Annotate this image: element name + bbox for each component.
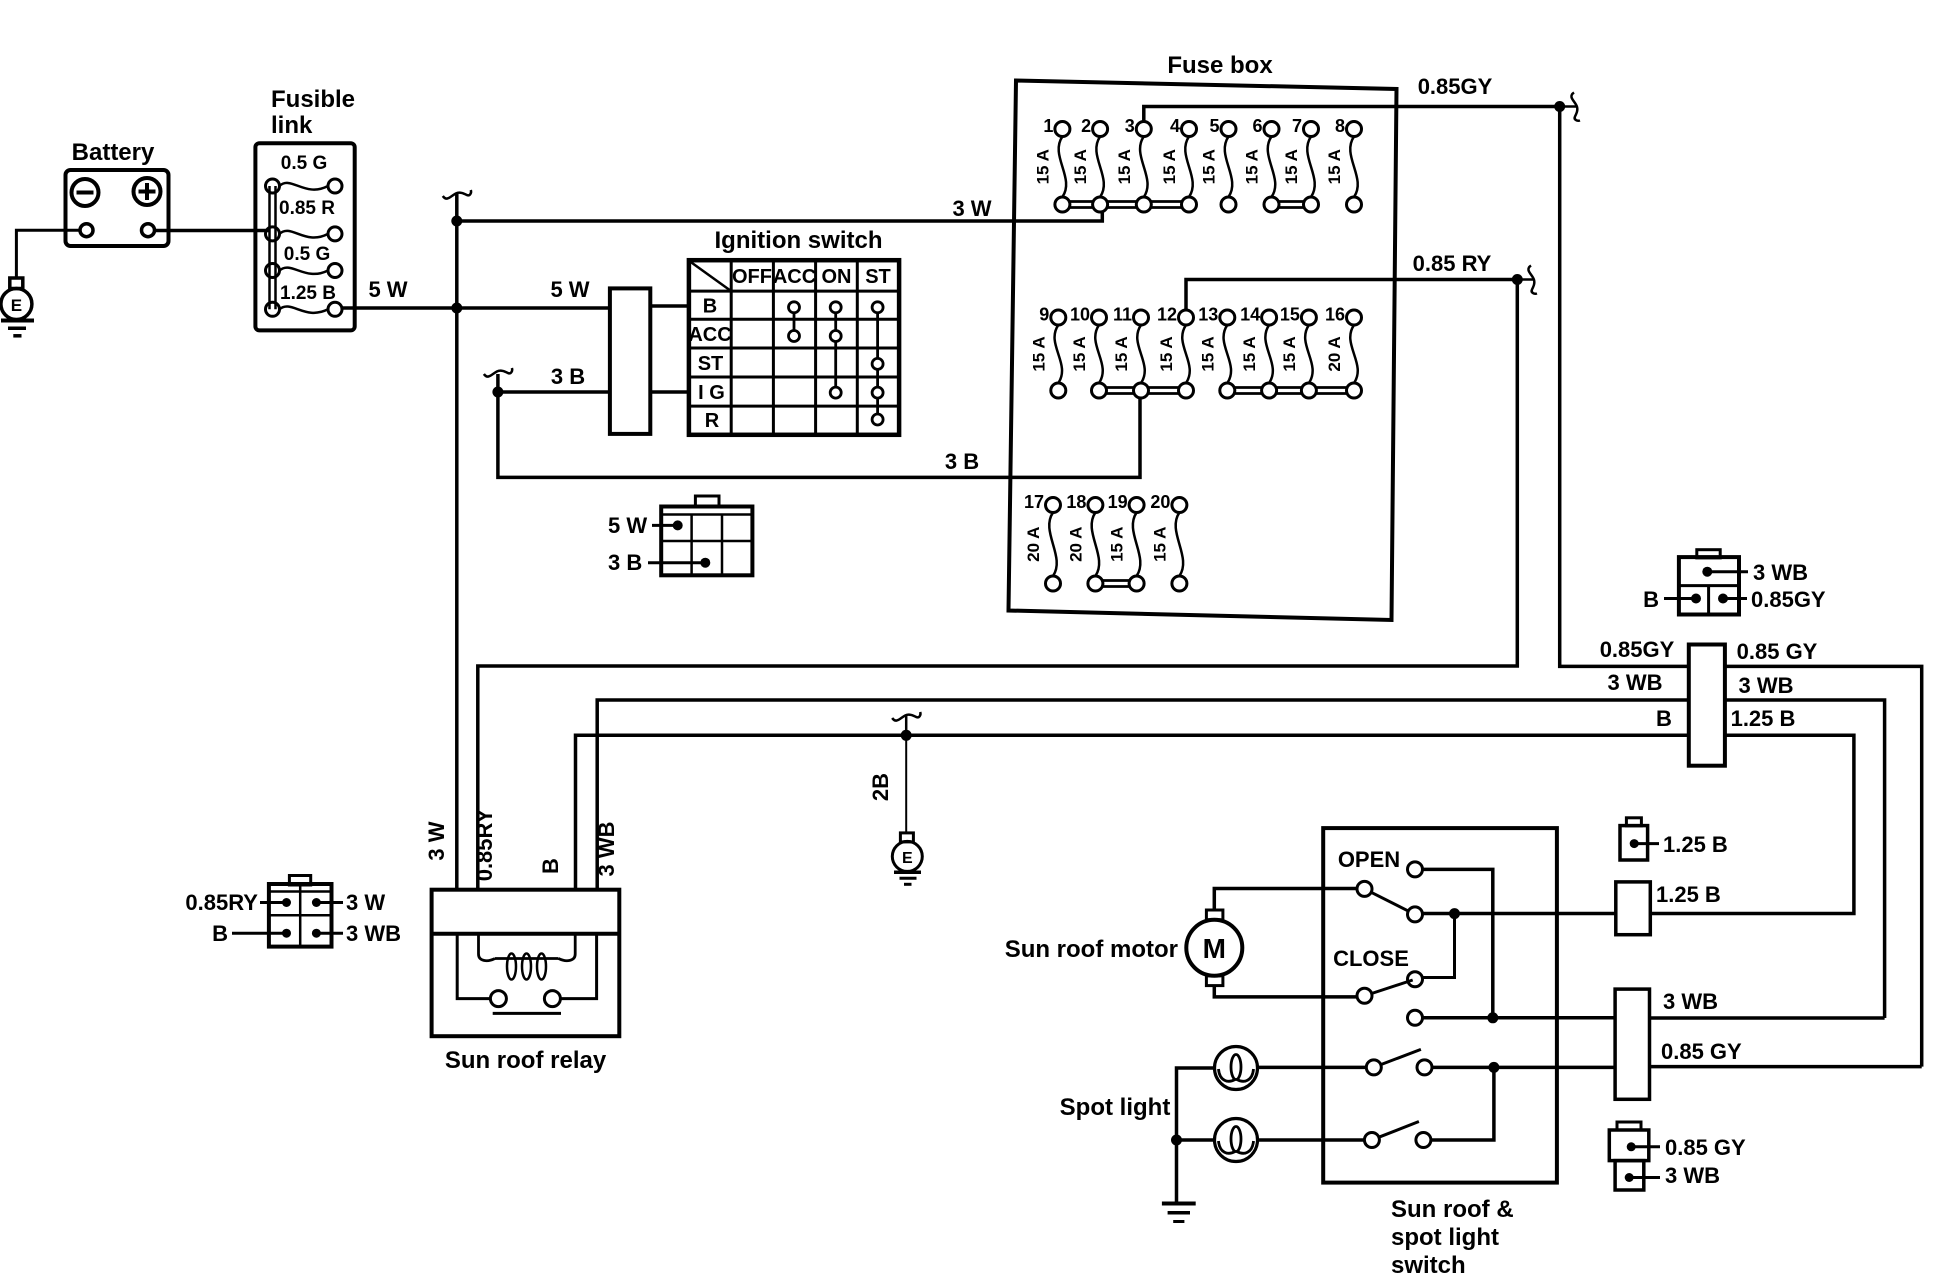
- sun roof relay: [432, 890, 620, 1036]
- wire 3WB relay to connector block: [597, 700, 1689, 890]
- svg-text:0.5 G: 0.5 G: [281, 153, 327, 174]
- fuse box bus fuses 18-19: [1095, 581, 1136, 587]
- svg-text:1: 1: [1043, 116, 1053, 136]
- svg-text:switch: switch: [1391, 1252, 1466, 1279]
- fusible link box: [255, 143, 354, 330]
- wire 3WB switch to connector: [1423, 1016, 1616, 1020]
- switch contact sun roof movable lower: [1357, 988, 1372, 1003]
- svg-text:5 W: 5 W: [368, 277, 407, 302]
- connector symbol at 3B node: [484, 368, 512, 377]
- svg-text:ACC: ACC: [773, 266, 816, 288]
- svg-text:Fuse box: Fuse box: [1167, 52, 1273, 79]
- wire 0.85RY junction down and across to relay: [478, 280, 1518, 890]
- fuse 19 (15A): [1108, 492, 1145, 591]
- switch A contact left: [1366, 1060, 1381, 1075]
- wire 3W pin lead: [316, 901, 343, 904]
- wire OPEN contact to 3WB junction: [1423, 869, 1493, 1017]
- svg-text:3 WB: 3 WB: [1753, 560, 1808, 585]
- svg-text:OFF: OFF: [732, 266, 772, 288]
- svg-text:11: 11: [1113, 305, 1132, 325]
- svg-text:Battery: Battery: [72, 139, 155, 166]
- fusible link fuse 0.5 G (second): [266, 244, 343, 278]
- spot light lamp 1: [1215, 1047, 1258, 1090]
- svg-text:B: B: [703, 296, 717, 318]
- switch A contact right: [1417, 1060, 1432, 1075]
- fusible link fuse 0.85 R: [266, 198, 343, 241]
- svg-text:15 A: 15 A: [1240, 336, 1259, 371]
- switch blade upper: [1371, 892, 1413, 913]
- wire motor lower to switch: [1214, 986, 1357, 997]
- svg-text:link: link: [271, 112, 313, 139]
- fusible link fuse 1.25 B: [266, 283, 343, 316]
- node junction 0.85GY: [1554, 101, 1565, 112]
- fuse 2 (15A): [1071, 116, 1108, 212]
- svg-text:3 WB: 3 WB: [1665, 1163, 1720, 1188]
- svg-text:15 A: 15 A: [1325, 149, 1344, 184]
- wire 0.85GY fuse 3 to junction: [1144, 107, 1560, 122]
- fuse 10 (15A): [1070, 305, 1107, 399]
- svg-text:5 W: 5 W: [608, 513, 647, 538]
- ground (spot light): [1162, 1204, 1196, 1222]
- svg-text:Sun roof motor: Sun roof motor: [1005, 936, 1178, 963]
- wire lamp2 to switch B: [1258, 1138, 1365, 1142]
- wire 5W pin lead: [652, 524, 678, 527]
- fusible link fuse 0.5 G: [266, 153, 343, 193]
- svg-text:20 A: 20 A: [1066, 527, 1085, 562]
- svg-text:3 W: 3 W: [952, 196, 991, 221]
- node junction 3WB feed: [1487, 1012, 1498, 1023]
- fuse 16 (20A): [1325, 305, 1362, 399]
- svg-text:6: 6: [1252, 116, 1262, 136]
- inline connector 1.25B: [1616, 882, 1651, 935]
- wire 0.85 GY right of block: [1725, 666, 1922, 1066]
- svg-text:Sun roof relay: Sun roof relay: [445, 1047, 607, 1074]
- node junction 2B on B wire: [901, 730, 912, 741]
- fuse box bus fuses 13-16: [1227, 388, 1354, 394]
- switch B blade: [1379, 1122, 1419, 1138]
- connector symbol at 2B node: [905, 716, 908, 735]
- fuse 8 (15A): [1325, 116, 1362, 212]
- svg-text:20: 20: [1150, 492, 1170, 512]
- fuse 15 (15A): [1280, 305, 1317, 399]
- ignition table contacts column ON: [830, 302, 841, 398]
- switch contact CLOSE fixed: [1408, 972, 1423, 987]
- wire lamps common to ground: [1177, 1068, 1215, 1204]
- connector symbol at 0.85GY node: [1560, 105, 1576, 108]
- svg-text:20 A: 20 A: [1024, 527, 1043, 562]
- svg-text:15 A: 15 A: [1200, 149, 1219, 184]
- fuse 14 (15A): [1240, 305, 1277, 399]
- ground E (2B): [892, 833, 922, 884]
- svg-text:3 WB: 3 WB: [1663, 989, 1718, 1014]
- svg-text:0.85RY: 0.85RY: [185, 890, 258, 915]
- svg-text:12: 12: [1157, 305, 1177, 325]
- svg-text:ON: ON: [822, 266, 852, 288]
- fuse 13 (15A): [1198, 305, 1235, 399]
- node junction lamps common: [1171, 1135, 1182, 1146]
- fuse 9 (15A): [1029, 305, 1066, 399]
- svg-text:I G: I G: [698, 382, 725, 404]
- svg-text:B: B: [538, 858, 563, 874]
- svg-text:E: E: [11, 296, 22, 315]
- svg-text:15 A: 15 A: [1029, 336, 1048, 371]
- wire 1.25 B right of block: [1650, 735, 1854, 913]
- svg-text:4: 4: [1170, 116, 1180, 136]
- fuse 17 (20A): [1024, 492, 1061, 591]
- connector block (body harness): [1689, 645, 1725, 766]
- svg-text:15 A: 15 A: [1108, 527, 1127, 562]
- fuse box outline: [1009, 81, 1397, 621]
- wire 3B ignition to fuse box: [498, 374, 1140, 477]
- wire B pin lead (three-pin): [1664, 597, 1696, 600]
- battery: [66, 170, 169, 246]
- connector symbol at 3W node: [443, 190, 471, 199]
- fusible link bus: [270, 186, 276, 309]
- ignition switch table: [689, 260, 899, 435]
- relay contacts: [490, 991, 506, 1007]
- svg-text:15 A: 15 A: [1198, 336, 1217, 371]
- fuse box bus fuses 6-7: [1272, 202, 1312, 208]
- fuse 3 (15A): [1115, 116, 1152, 212]
- svg-text:3 WB: 3 WB: [594, 822, 619, 877]
- switch A blade: [1381, 1049, 1421, 1064]
- svg-text:15 A: 15 A: [1115, 149, 1134, 184]
- svg-text:0.85 GY: 0.85 GY: [1665, 1135, 1746, 1160]
- svg-text:15 A: 15 A: [1033, 149, 1052, 184]
- relay harness connector (4 pin): [269, 876, 332, 947]
- svg-text:5 W: 5 W: [550, 277, 589, 302]
- wire motor upper to switch: [1214, 889, 1357, 911]
- svg-text:2B: 2B: [868, 773, 893, 801]
- svg-text:7: 7: [1292, 116, 1302, 136]
- svg-text:B: B: [1656, 706, 1672, 731]
- svg-text:0.85 GY: 0.85 GY: [1661, 1039, 1742, 1064]
- svg-text:1.25 B: 1.25 B: [1656, 882, 1721, 907]
- svg-text:1.25 B: 1.25 B: [280, 283, 336, 304]
- svg-text:15 A: 15 A: [1070, 336, 1089, 371]
- svg-text:15 A: 15 A: [1243, 149, 1262, 184]
- fuse 5 (15A): [1200, 116, 1237, 212]
- wire 3W main vertical feed: [455, 194, 459, 890]
- wire 3WB pin lead (three-pin): [1707, 570, 1748, 573]
- switch B contact right: [1416, 1133, 1431, 1148]
- svg-text:0.85 GY: 0.85 GY: [1737, 639, 1818, 664]
- wire 3WB pin lead: [316, 932, 343, 935]
- svg-text:3 WB: 3 WB: [346, 921, 401, 946]
- node junction 3W: [451, 216, 462, 227]
- svg-text:3 WB: 3 WB: [1608, 670, 1663, 695]
- svg-text:15 A: 15 A: [1157, 336, 1176, 371]
- svg-text:15: 15: [1280, 305, 1300, 325]
- wire 3 WB right of block: [1725, 700, 1885, 1018]
- wire 5W fusible link to ignition connector: [342, 306, 610, 310]
- svg-text:ACC: ACC: [688, 324, 731, 346]
- fuse 18 (20A): [1066, 492, 1103, 591]
- connector symbol at 0.85RY node: [1517, 278, 1533, 281]
- relay coil: [479, 934, 496, 961]
- svg-text:3: 3: [1125, 116, 1135, 136]
- svg-text:3 B: 3 B: [551, 364, 585, 389]
- svg-text:0.85 RY: 0.85 RY: [1413, 251, 1492, 276]
- fuse box bus fuses 10-12: [1099, 388, 1186, 394]
- svg-text:10: 10: [1070, 305, 1090, 325]
- svg-text:R: R: [705, 410, 720, 432]
- svg-text:0.85 R: 0.85 R: [279, 198, 335, 219]
- svg-text:8: 8: [1335, 116, 1345, 136]
- switch blade lower: [1372, 980, 1413, 994]
- svg-text:OPEN: OPEN: [1338, 847, 1400, 872]
- svg-text:15 A: 15 A: [1282, 149, 1301, 184]
- wire 0.85GY switch to connector: [1432, 1066, 1615, 1070]
- ignition table contacts column ST: [872, 302, 883, 425]
- ignition switch connector: [610, 288, 650, 434]
- svg-text:3 B: 3 B: [945, 449, 979, 474]
- svg-text:3 B: 3 B: [608, 550, 642, 575]
- svg-text:2: 2: [1081, 116, 1091, 136]
- svg-text:3 W: 3 W: [424, 821, 449, 860]
- svg-text:ST: ST: [698, 353, 724, 375]
- svg-text:0.85GY: 0.85GY: [1600, 637, 1675, 662]
- node junction 5W: [451, 303, 462, 314]
- wire 0.85GY junction down to connector: [1560, 107, 1689, 667]
- svg-text:1.25 B: 1.25 B: [1663, 832, 1728, 857]
- single-pin connector 1.25B: [1620, 818, 1648, 860]
- svg-text:3 WB: 3 WB: [1739, 673, 1794, 698]
- svg-text:Sun roof &: Sun roof &: [1391, 1196, 1514, 1223]
- wire 3B to ignition connector: [498, 390, 610, 394]
- svg-text:Ignition switch: Ignition switch: [715, 227, 883, 254]
- svg-text:15 A: 15 A: [1160, 149, 1179, 184]
- svg-text:15 A: 15 A: [1071, 149, 1090, 184]
- svg-text:20 A: 20 A: [1325, 336, 1344, 371]
- fuse 6 (15A): [1243, 116, 1280, 212]
- svg-text:M: M: [1203, 933, 1226, 964]
- wire connector to table IG row: [650, 390, 689, 394]
- ignition table contacts column ACC: [789, 302, 800, 342]
- wire 0.85GY pin lead (two-pin): [1631, 1145, 1660, 1148]
- wire 0.85GY pin lead (three-pin): [1723, 597, 1747, 600]
- node junction 0.85RY: [1512, 274, 1523, 285]
- switch contact 3WB feed: [1408, 1010, 1423, 1025]
- svg-text:CLOSE: CLOSE: [1333, 946, 1409, 971]
- svg-text:E: E: [902, 850, 913, 867]
- fuse 1 (15A): [1033, 116, 1070, 212]
- svg-text:0.85GY: 0.85GY: [1751, 587, 1826, 612]
- switch contact sun roof movable upper: [1357, 881, 1372, 896]
- wire connector to table B row: [650, 304, 689, 308]
- ground E (battery): [1, 278, 34, 336]
- fuse 20 (15A): [1150, 492, 1187, 591]
- svg-text:17: 17: [1024, 492, 1044, 512]
- ignition harness connector (5W 3B): [661, 496, 752, 575]
- switch B contact left: [1364, 1133, 1379, 1148]
- wire 0.85RY pin lead: [260, 901, 287, 904]
- spot light lamp 2: [1215, 1119, 1258, 1162]
- wire 0.85RY fuse 12 to junction: [1186, 280, 1517, 311]
- fuse 11 (15A): [1112, 305, 1149, 399]
- wire 3WB pin lead (two-pin): [1629, 1176, 1660, 1179]
- node junction 1.25B feed: [1449, 908, 1460, 919]
- svg-text:3 W: 3 W: [346, 890, 385, 915]
- fuse 12 (15A): [1157, 305, 1194, 399]
- node junction 0.85GY feed: [1488, 1062, 1499, 1073]
- svg-text:1.25 B: 1.25 B: [1731, 706, 1796, 731]
- svg-text:0.85RY: 0.85RY: [472, 808, 497, 881]
- svg-text:B: B: [212, 921, 228, 946]
- svg-text:0.5 G: 0.5 G: [284, 244, 330, 265]
- wire 2B down to ground: [905, 735, 907, 833]
- wire B pin lead: [232, 932, 287, 935]
- svg-text:15 A: 15 A: [1112, 336, 1131, 371]
- svg-text:ST: ST: [865, 266, 891, 288]
- svg-text:Fusible: Fusible: [271, 86, 355, 113]
- svg-text:B: B: [1643, 587, 1659, 612]
- svg-text:5: 5: [1209, 116, 1219, 136]
- inline connector 3WB 0.85GY: [1615, 989, 1649, 1099]
- fuse box bus fuses 1-4: [1062, 202, 1189, 208]
- svg-text:spot light: spot light: [1391, 1224, 1499, 1251]
- fuse 4 (15A): [1160, 116, 1197, 212]
- svg-text:Spot light: Spot light: [1060, 1094, 1171, 1121]
- wire battery negative to ground: [16, 230, 80, 278]
- two-pin connector 0.85GY 3WB: [1609, 1122, 1649, 1190]
- wire junction down to switch B: [1431, 1067, 1494, 1140]
- three-pin connector (3WB B 0.85GY): [1679, 550, 1739, 615]
- wire 3W to fuse box: [457, 206, 1103, 221]
- fuse 7 (15A): [1282, 116, 1319, 212]
- sun roof motor: [1186, 910, 1242, 986]
- sun roof and spot light switch box: [1323, 828, 1557, 1183]
- switch contact common (1.25B): [1408, 907, 1423, 922]
- svg-text:14: 14: [1240, 305, 1260, 325]
- wire 0.85GY inline right: [1650, 1065, 1922, 1069]
- wire lamp1 to switch A: [1258, 1066, 1367, 1070]
- wire 3WB inline right: [1650, 1016, 1885, 1020]
- svg-text:18: 18: [1066, 492, 1086, 512]
- wire B relay to connector block: [576, 735, 1689, 889]
- svg-text:16: 16: [1325, 305, 1345, 325]
- node junction 3B: [492, 387, 503, 398]
- wire 1.25B switch to connector: [1423, 912, 1616, 916]
- switch contact OPEN fixed: [1408, 862, 1423, 877]
- wire junction down to CLOSE contact: [1422, 914, 1454, 978]
- svg-text:15 A: 15 A: [1280, 336, 1299, 371]
- wire 1.25B pin lead: [1634, 842, 1659, 845]
- svg-text:0.85GY: 0.85GY: [1418, 74, 1493, 99]
- svg-text:19: 19: [1108, 492, 1128, 512]
- svg-text:13: 13: [1198, 305, 1218, 325]
- svg-text:15 A: 15 A: [1150, 527, 1169, 562]
- wire 3B pin lead: [648, 561, 705, 564]
- svg-text:9: 9: [1039, 305, 1049, 325]
- wire battery positive to fusible link: [155, 229, 271, 233]
